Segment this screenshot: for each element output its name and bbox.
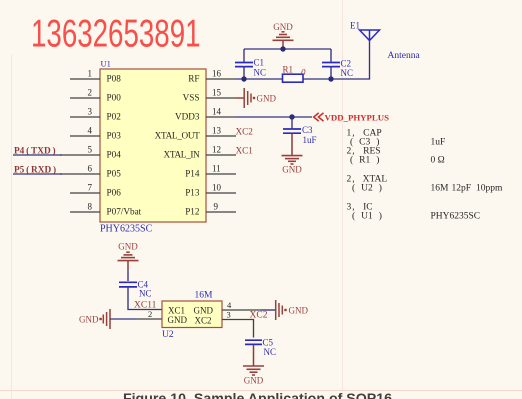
svg-text:PHY6235SC: PHY6235SC	[100, 224, 153, 235]
wire RF to antenna	[236, 41, 370, 79]
pin 10 stub	[206, 192, 236, 194]
svg-text:GND: GND	[273, 22, 293, 32]
svg-text:XC11: XC11	[134, 301, 157, 311]
svg-text:VDD_PHYPLUS: VDD_PHYPLUS	[325, 113, 390, 123]
svg-text:VSS: VSS	[183, 93, 200, 103]
pin numbers left 1-8	[88, 69, 93, 212]
crystal U2 body	[162, 301, 222, 328]
svg-text:8: 8	[88, 202, 93, 212]
svg-text:10: 10	[212, 183, 222, 193]
ground symbol below C5 (earth down)	[243, 366, 264, 375]
svg-text:GND: GND	[244, 376, 264, 386]
svg-text:C3: C3	[302, 125, 313, 135]
svg-text:XC2: XC2	[195, 315, 212, 325]
notes list	[347, 129, 504, 222]
wire C4 to XC1 pin	[128, 288, 162, 310]
svg-text:C1: C1	[254, 58, 265, 68]
svg-text:XC1: XC1	[236, 146, 254, 156]
svg-text:9: 9	[214, 202, 219, 212]
svg-text:NC: NC	[341, 68, 354, 78]
wire C3 to ground	[291, 134, 293, 155]
svg-text:GND: GND	[118, 242, 138, 252]
svg-text:P13: P13	[185, 188, 200, 198]
power ground right of U2	[276, 300, 283, 320]
junction dot GND/top bus	[280, 46, 285, 51]
svg-text:3: 3	[227, 310, 231, 320]
wire GND drop to top bus	[282, 41, 284, 49]
pin 1 stub	[70, 78, 100, 80]
svg-text:1: 1	[88, 69, 93, 79]
ground symbol top (earth up)	[273, 32, 294, 41]
svg-text:1uF: 1uF	[303, 135, 317, 145]
IC U1 PHY6235SC body	[100, 69, 206, 222]
svg-text:R1: R1	[283, 65, 294, 75]
table border vertical left	[11, 55, 13, 399]
svg-text:GND: GND	[289, 306, 309, 316]
svg-text:P12: P12	[185, 207, 200, 217]
junction dot C3/VDD3	[289, 114, 294, 119]
svg-text:C2: C2	[341, 59, 352, 69]
junction dot C1/RF	[241, 76, 246, 81]
capacitor C3 branch wire upper	[291, 117, 293, 129]
power ground left of U2	[99, 318, 101, 320]
wire P5 net	[13, 173, 62, 175]
pin 15 stub	[206, 97, 236, 99]
capacitor C3	[283, 129, 301, 133]
pin 14 stub	[206, 116, 236, 118]
pin 3 stub	[70, 116, 100, 118]
power ground at VSS pin 15	[236, 88, 251, 108]
wire C1 branch vertical	[243, 49, 245, 79]
svg-text:P02: P02	[107, 112, 122, 122]
wire U2 pin 3 to C5	[222, 320, 254, 338]
wire C5 to ground	[253, 345, 255, 366]
wire GND to C4	[127, 261, 129, 270]
pin 9 stub	[206, 211, 236, 213]
pin 11 stub	[206, 173, 236, 175]
svg-text:GND: GND	[168, 315, 188, 325]
svg-text:13: 13	[212, 126, 222, 136]
svg-text:E1: E1	[350, 21, 360, 31]
power port arrows VDD_PHYPLUS	[314, 113, 324, 121]
svg-text:P14: P14	[185, 169, 200, 179]
svg-text:XTAL_IN: XTAL_IN	[164, 150, 201, 160]
ground symbol above C4 (earth up)	[118, 252, 139, 260]
junction dot C2/RF	[328, 76, 333, 81]
svg-text:Figure 10. Sample Application: Figure 10. Sample Application of SOP16	[123, 391, 392, 399]
pin 12 stub	[206, 154, 236, 156]
ground symbol below C3 (earth down)	[282, 156, 303, 164]
table border vertical right of schematic	[342, 0, 344, 390]
svg-text:GND: GND	[194, 306, 214, 316]
svg-text:0: 0	[301, 68, 306, 78]
svg-text:14: 14	[212, 107, 222, 117]
svg-text:11: 11	[212, 164, 221, 174]
svg-text:NC: NC	[254, 68, 267, 78]
capacitor C2	[322, 63, 340, 67]
svg-text:16: 16	[212, 69, 222, 79]
svg-text:GND: GND	[282, 165, 302, 175]
svg-text:P08: P08	[107, 74, 122, 84]
svg-text:NC: NC	[264, 347, 277, 357]
wire VDD3 to power port	[236, 116, 312, 118]
pin 13 stub	[206, 135, 236, 137]
pin stubs left	[60, 79, 100, 212]
svg-text:0 Ω: 0 Ω	[431, 156, 445, 166]
svg-text:GND: GND	[79, 315, 99, 325]
svg-text:16M12pF10ppm: 16M12pF10ppm	[431, 184, 504, 194]
pin 7 stub	[70, 192, 100, 194]
svg-text:12: 12	[212, 145, 221, 155]
svg-text:RF: RF	[188, 74, 199, 84]
svg-text:Antenna: Antenna	[388, 51, 421, 61]
antenna E1	[360, 30, 380, 41]
pin 16 stub	[206, 78, 236, 80]
svg-text:VDD3: VDD3	[175, 112, 200, 122]
capacitor C4	[119, 282, 137, 287]
pin 8 stub	[70, 211, 100, 213]
resistor R1	[283, 74, 304, 82]
wire top bus C1-C2	[244, 48, 331, 50]
svg-text:5: 5	[88, 145, 93, 155]
pin 2 stub	[70, 97, 100, 99]
svg-text:4: 4	[88, 126, 93, 136]
pin 6 stub	[60, 173, 100, 175]
svg-text:3: 3	[88, 107, 93, 117]
pin names left column	[107, 74, 142, 217]
svg-text:13632653891: 13632653891	[31, 13, 201, 55]
wire U2 pin 4 to ground	[222, 309, 261, 311]
table border horizontal bottom	[0, 390, 522, 392]
svg-text:U1: U1	[101, 59, 111, 69]
wire GND to U2 pin 2	[110, 318, 137, 320]
svg-text:GND: GND	[257, 94, 277, 104]
wire C2 branch vertical	[330, 49, 332, 79]
pin stubs right	[206, 79, 236, 212]
pin names right column	[155, 74, 201, 217]
svg-text:P06: P06	[107, 188, 122, 198]
wire P4 net	[13, 154, 62, 156]
svg-text:P04: P04	[107, 150, 122, 160]
svg-text:NC: NC	[139, 289, 152, 299]
pin 4 stub	[70, 135, 100, 137]
capacitor C1	[235, 63, 253, 67]
svg-text:PHY6235SC: PHY6235SC	[431, 212, 481, 222]
svg-text:15: 15	[212, 88, 222, 98]
pin numbers right 16-9	[212, 69, 222, 212]
svg-text:2: 2	[88, 88, 93, 98]
svg-text:P07/Vbat: P07/Vbat	[107, 207, 142, 217]
svg-text:P00: P00	[107, 93, 122, 103]
svg-text:16M: 16M	[195, 291, 214, 301]
svg-text:C5: C5	[263, 338, 274, 348]
svg-text:7: 7	[88, 183, 93, 193]
svg-text:6: 6	[88, 164, 93, 174]
svg-text:2: 2	[148, 309, 152, 319]
svg-text:XC2: XC2	[236, 127, 254, 137]
svg-text:XTAL_OUT: XTAL_OUT	[155, 131, 201, 141]
svg-text:U2: U2	[162, 330, 174, 340]
pin 5 stub	[60, 154, 100, 156]
svg-text:P05: P05	[107, 169, 122, 179]
svg-text:P03: P03	[107, 131, 122, 141]
svg-text:1uF: 1uF	[431, 138, 446, 148]
capacitor C5	[245, 340, 262, 344]
